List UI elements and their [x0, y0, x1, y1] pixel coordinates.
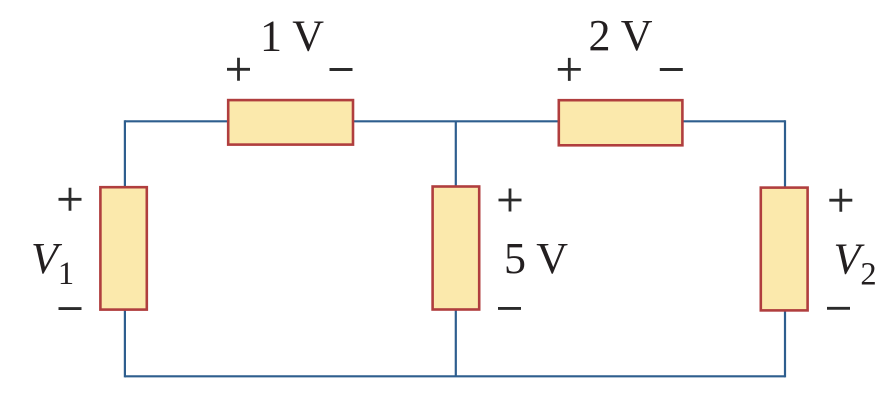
wire: bottom horizontal net — [125, 375, 785, 377]
polarity + of 5 V — [499, 189, 522, 212]
polarity - of 1 V — [330, 68, 353, 71]
wire: right vertical branch — [784, 120, 786, 377]
wire: top horizontal net — [125, 120, 785, 122]
polarity + of V2 — [829, 189, 852, 212]
svg-text:5 V: 5 V — [504, 234, 568, 283]
element box 1 V (top-left series element) — [228, 100, 353, 145]
element box V1 (left shunt element) — [100, 187, 146, 309]
polarity + of 1 V — [227, 58, 250, 81]
polarity + of 2 V — [558, 58, 581, 81]
svg-text:1 V: 1 V — [260, 12, 324, 61]
polarity - of 5 V — [498, 307, 521, 310]
element box V2 (right shunt element) — [761, 188, 808, 311]
polarity + of V1 — [59, 188, 82, 211]
polarity - of V2 — [827, 307, 850, 310]
svg-text:V2: V2 — [834, 234, 877, 292]
polarity - of 2 V — [660, 68, 683, 71]
polarity - of V1 — [59, 307, 82, 310]
element box 5 V (middle shunt element) — [433, 187, 480, 310]
wire: middle vertical branch — [455, 121, 457, 376]
svg-text:2 V: 2 V — [589, 11, 653, 60]
element box 2 V (top-right series element) — [559, 100, 683, 145]
wire: left vertical branch — [124, 120, 126, 377]
svg-text:V1: V1 — [31, 234, 74, 292]
